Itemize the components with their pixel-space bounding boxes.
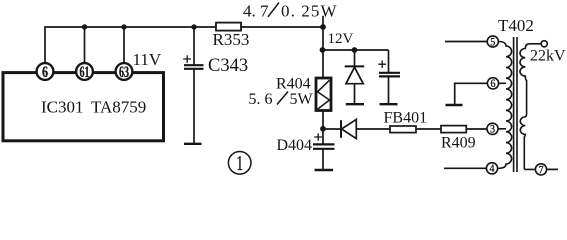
svg-text:R353: R353 <box>213 30 250 49</box>
svg-text:7: 7 <box>539 164 544 176</box>
ground under zener <box>346 103 364 105</box>
svg-text:5. 6: 5. 6 <box>249 91 273 108</box>
pin 6 of T402 <box>487 78 498 89</box>
svg-text:12V: 12V <box>328 31 354 47</box>
pin 61 of IC301 <box>76 63 93 80</box>
svg-text:T402: T402 <box>498 16 534 35</box>
ground under filter cap <box>380 103 398 105</box>
svg-text:63: 63 <box>119 64 129 81</box>
svg-text:61: 61 <box>80 64 90 81</box>
svg-text:0. 25W: 0. 25W <box>281 2 338 21</box>
wire diode to FB401 <box>356 128 390 130</box>
pin 4 of T402 <box>486 163 497 174</box>
wire stub right of pin 7 <box>547 168 558 170</box>
wire main vertical 12V drop <box>322 27 324 78</box>
svg-text:4: 4 <box>490 163 495 175</box>
wire junction to cap <box>322 129 324 144</box>
wire drop to pin 6 <box>44 26 46 63</box>
node junction dot at pin63 drop <box>121 24 126 29</box>
wire top rail right segment <box>241 26 323 28</box>
svg-text:3: 3 <box>490 124 495 136</box>
wire to pin 4 <box>444 167 486 169</box>
svg-text:22kV: 22kV <box>530 48 566 65</box>
svg-text:IC301: IC301 <box>41 97 84 116</box>
pin 63 of IC301 <box>116 63 133 80</box>
diode zener at 12V rail <box>354 50 356 66</box>
resistor R409 body <box>441 126 466 133</box>
wire top rail left segment <box>45 26 216 28</box>
resistor R404 body (fusible) <box>316 78 331 111</box>
transformer primary tap hooks <box>498 83 506 129</box>
capacitor filter plates <box>379 73 400 77</box>
ground at pin 6 wire <box>446 104 463 106</box>
node junction dot D404 <box>320 126 326 132</box>
wire drop to pin 61 <box>84 27 86 64</box>
pin 7 of T402 <box>535 164 546 175</box>
wire R409 to pin 3 <box>466 128 487 130</box>
circled figure number 1 <box>228 152 251 175</box>
wire cap to ground <box>322 149 324 170</box>
pin 3 of T402 <box>487 123 498 134</box>
op-amp IC301 box <box>3 73 164 141</box>
svg-text:TA8759: TA8759 <box>91 97 146 116</box>
wire cap bottom stub <box>388 76 390 103</box>
svg-text:R404: R404 <box>276 76 311 93</box>
capacitor at D404 plates <box>313 144 335 148</box>
wire C343 bottom stub <box>193 69 195 144</box>
wire R404 to D404 junction <box>322 111 324 130</box>
svg-text:FB401: FB401 <box>384 109 428 126</box>
svg-text:5: 5 <box>490 36 495 48</box>
pin 6 of IC301 <box>37 63 54 80</box>
wire to pin 5 <box>445 41 487 43</box>
diode D404 triangle <box>342 119 357 138</box>
capacitor C343 plates <box>184 65 204 69</box>
svg-text:11V: 11V <box>133 50 162 69</box>
capacitor at D404 node plus mark <box>314 133 322 140</box>
resistor R353 body <box>216 23 241 31</box>
wire 12V stub above junction <box>322 16 324 27</box>
pin 5 of T402 <box>487 36 498 47</box>
node junction dot at zener tap <box>352 47 358 53</box>
terminal 22kV open circle <box>541 41 547 47</box>
wire C343 top stub <box>193 27 195 64</box>
capacitor plus polarity mark <box>378 60 386 68</box>
transformer core lines <box>514 37 517 172</box>
svg-text:6: 6 <box>491 78 496 90</box>
node junction dot 12V rail left <box>320 47 326 53</box>
svg-text:6: 6 <box>42 64 48 81</box>
node junction dot at C343 tap <box>191 24 196 29</box>
wire drop to pin 63 <box>123 27 125 64</box>
transformer T402 primary winding <box>498 42 511 169</box>
wire junction to diode <box>323 128 341 130</box>
svg-text:5W: 5W <box>290 91 314 108</box>
resistor R404 zigzag <box>318 80 330 109</box>
node junction dot at pin61 drop <box>82 24 87 29</box>
wire cap corner from rail <box>388 50 390 72</box>
ground under D404 cap <box>315 169 334 172</box>
ferrite bead FB401 body <box>390 126 416 133</box>
svg-text:R409: R409 <box>441 134 476 151</box>
ground bar under C343 <box>184 143 202 145</box>
capacitor C343 plus polarity mark <box>183 55 191 62</box>
svg-text:1: 1 <box>236 151 243 175</box>
svg-text:D404: D404 <box>277 137 313 154</box>
node junction dot at 12V drop <box>320 24 326 30</box>
wire FB401 to R409 <box>416 128 441 130</box>
transformer T402 secondary winding <box>520 44 541 170</box>
wire pin 6 to ground <box>455 83 488 104</box>
diode D404 cathode bar <box>340 120 342 138</box>
wire 12V rail <box>323 49 389 51</box>
svg-text:C343: C343 <box>208 56 248 76</box>
svg-text:4. 7: 4. 7 <box>243 2 269 21</box>
